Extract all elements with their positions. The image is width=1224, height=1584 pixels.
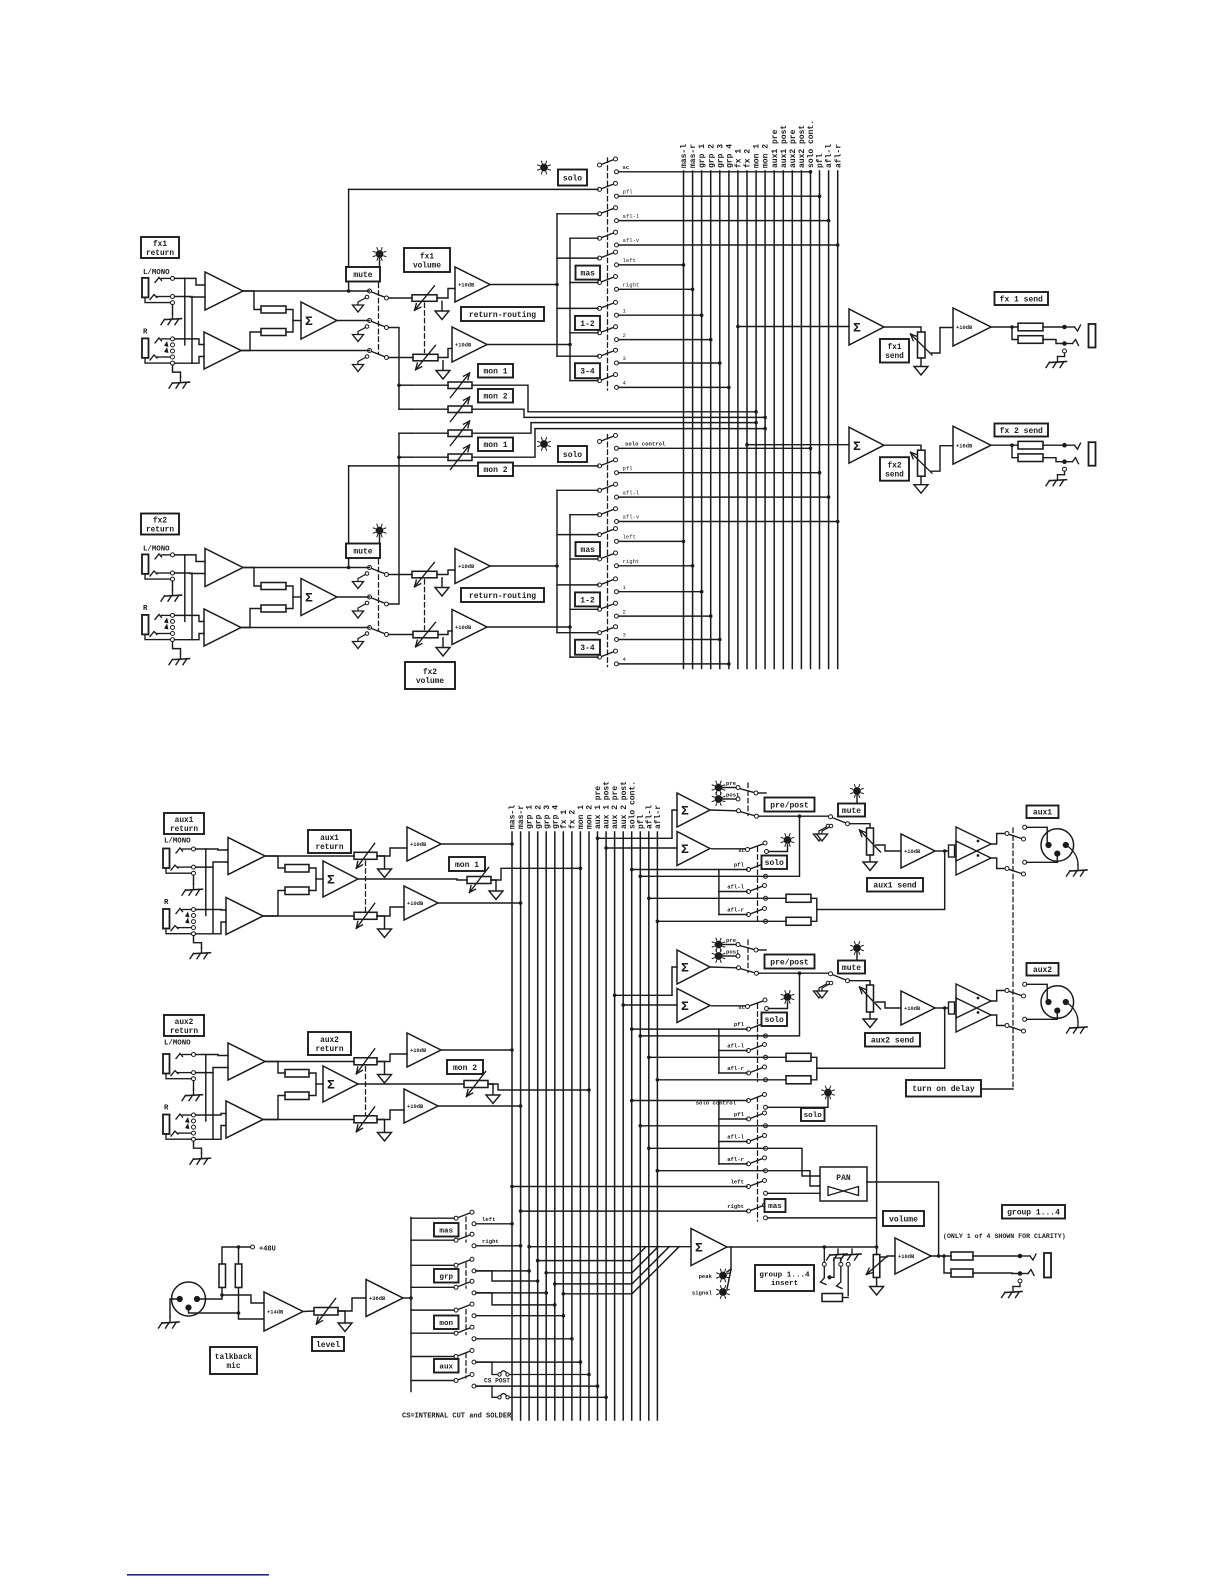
op-amp fx1 mono sum <box>301 302 337 339</box>
svg-text:Σ: Σ <box>305 591 313 606</box>
svg-text:2: 2 <box>623 332 626 339</box>
svg-text:mas: mas <box>768 1203 782 1211</box>
svg-text:1-2: 1-2 <box>580 596 595 605</box>
wire (fx1 L routing bracket) <box>556 214 558 356</box>
op-amp fx2 send +10dB <box>953 426 991 464</box>
ground contact (fx1 mute L) <box>365 295 369 299</box>
svg-text:signal: signal <box>692 1290 713 1297</box>
wire (+14dB to level pot) <box>303 1310 314 1313</box>
svg-text:+36dB: +36dB <box>369 1296 386 1302</box>
wire (fx1 sum to send pot) <box>884 327 921 332</box>
wire (fx1 R routing bracket) <box>569 238 571 380</box>
svg-text:R: R <box>143 329 148 337</box>
wire (aux1 pre sum to switch) <box>710 809 737 812</box>
potentiometer aux1 return level R <box>354 912 377 919</box>
junction (aux1 afl-l) <box>647 897 651 901</box>
label box aux1 return <box>164 813 204 834</box>
jack J-group-insert (insert point) <box>823 1247 825 1262</box>
label box fx 2 send <box>995 424 1049 437</box>
junction (talkback aux2 post) <box>604 1396 608 1400</box>
ground (insert jack send) <box>837 1249 839 1254</box>
wire (aux1 mon 1 pot to bus) <box>491 868 580 880</box>
svg-text:aux1 send: aux1 send <box>873 882 916 891</box>
wire (bus fx 2 to fx2 send sum) <box>747 444 849 446</box>
wire (aux1 driver hot out) <box>991 834 1005 845</box>
switch fx2 routing: 1 <box>601 579 614 584</box>
junction (fx2 R feed) <box>568 625 572 629</box>
svg-text:afl-l: afl-l <box>727 1043 744 1050</box>
dashed gang link (talkback aux) <box>465 1353 467 1378</box>
wire (fx2 L ring normal to R) <box>191 573 193 640</box>
op-amp aux2 mono sum <box>323 1066 358 1102</box>
svg-text:PAN: PAN <box>836 1174 851 1183</box>
label box return-routing (fx2) <box>461 588 544 602</box>
wire (volume wiper to +10dB) <box>880 1256 895 1257</box>
wire (volume pot ground) <box>876 1278 878 1287</box>
svg-text:CS=INTERNAL CUT and SOLDER: CS=INTERNAL CUT and SOLDER <box>402 1413 512 1421</box>
wire (fx1 L tip normal to R) <box>184 278 186 345</box>
svg-text:sc: sc <box>623 164 630 171</box>
wire (aux2 L buffer to resistor) <box>265 1062 285 1074</box>
svg-text:+10dB: +10dB <box>407 901 424 907</box>
ground (aux1 XLR shell) <box>1077 865 1079 870</box>
label box mas (talkback route) <box>434 1223 459 1237</box>
svg-text:afl-l: afl-l <box>825 144 834 168</box>
wire (fx1 +10dB L out to bracket) <box>490 284 557 286</box>
wire (aux1 L buffer to resistor) <box>265 856 285 868</box>
switch fx2 routing: afl-l <box>601 485 614 490</box>
svg-text:aux1 post: aux1 post <box>780 125 789 168</box>
dashed gang link (fx2 routing bank) <box>607 435 609 667</box>
ground (aux2 level L pot) <box>378 1075 392 1084</box>
ground (jack aux2 R sleeve) <box>201 1153 203 1158</box>
wire (fx1 mute L to volume pot) <box>389 297 413 299</box>
LED fx1 mute indicator <box>376 251 383 258</box>
dashed gang link (talkback grp) <box>465 1263 467 1288</box>
op-amp aux1 +10dB R <box>404 886 438 920</box>
switch aux2 pre/post signal <box>740 969 755 973</box>
junction (group sum tap 3) <box>544 1271 548 1275</box>
wire (jack fx2 R sleeve to ground) <box>173 642 181 654</box>
svg-text:right: right <box>727 1203 744 1210</box>
switch talkback mon 2 <box>458 1328 471 1333</box>
wire (aux2 L tip normal to R) <box>205 1055 207 1122</box>
label box aux1 send <box>867 878 923 892</box>
wire (aux1 afl-r pole feed) <box>719 914 747 916</box>
svg-text:aux1: aux1 <box>320 835 339 843</box>
svg-text:grp 1: grp 1 <box>698 144 707 168</box>
svg-text:aux1 pre: aux1 pre <box>771 129 780 168</box>
switch fx2 routing: 3 <box>601 627 614 632</box>
wire (spine to talkback mas 2) <box>411 1239 454 1241</box>
resistor (fx1 L to sum) <box>261 306 286 313</box>
dashed gang link (aux1 solo bank) <box>757 847 759 923</box>
svg-text:afl-r: afl-r <box>834 144 843 168</box>
switch fx1 routing: sc <box>601 160 614 165</box>
switch aux1 mute <box>832 818 846 824</box>
junction (group solo cont) <box>630 1099 634 1103</box>
svg-text:1-2: 1-2 <box>580 320 595 329</box>
wire (fx1 mute mono out to mon pots) <box>389 328 400 410</box>
junction (aux2 afl-r) <box>656 1078 660 1082</box>
dashed gang link (fx2 volume pots) <box>424 580 426 630</box>
wire (bus tap 5 to group sum, diagonal) <box>563 1247 679 1294</box>
svg-text:fx1: fx1 <box>420 253 434 261</box>
ground contact (aux2 mute) <box>826 981 830 985</box>
wire (fx2 L bracket to pole) <box>557 534 598 536</box>
wire (aux1 R pot to +10dB) <box>377 907 404 916</box>
svg-text:fx2: fx2 <box>153 517 167 525</box>
wire (talkback aux2) <box>476 1385 598 1387</box>
junction (talkback grp1) <box>527 1269 531 1273</box>
wire (sum node to aux2 sum amp) <box>316 1083 323 1085</box>
junction (fx2 mon2 on bus) <box>763 427 767 431</box>
wire (group sc pole feed) <box>719 1100 747 1102</box>
ground (aux1 level L pot) <box>378 869 392 878</box>
potentiometer fx1 send level <box>918 332 926 358</box>
junction (group afl-r) <box>656 1169 660 1173</box>
LED fx2 mute indicator <box>376 527 383 534</box>
ground contact (fx2 mute R) <box>365 632 369 636</box>
wire (aux2 pre LED to switch) <box>723 944 737 946</box>
svg-text:mas-l: mas-l <box>680 144 689 168</box>
wire (sum node to aux1 sum amp) <box>316 878 323 880</box>
svg-text:pfl: pfl <box>623 465 634 472</box>
wire (talkback grp4 stair) <box>476 1293 555 1305</box>
switch fx2 routing: left <box>601 529 614 534</box>
op-amp aux1 send +10dB <box>901 834 935 868</box>
wire (+48V feed) <box>222 1247 251 1264</box>
connector aux2 XLR output <box>1041 986 1074 1019</box>
wire (aux1 L pot ground) <box>377 856 385 869</box>
junction (aux1 afl tap) <box>943 849 947 853</box>
wire (fx2 L buffer out to mute) <box>243 567 370 569</box>
switch group mas: right <box>750 1206 763 1211</box>
svg-text:pfl: pfl <box>734 862 745 869</box>
ground (jack aux1 R sleeve) <box>201 948 203 953</box>
bus lines (top section): mas-l..afl-r with rotated labels <box>683 171 685 669</box>
switch aux1 solo: afl-r <box>750 909 763 914</box>
wire (fx1 mon2 pot to mon2 bus) <box>472 409 765 417</box>
wire (afl-r bus to group bank) <box>657 1170 765 1172</box>
resistor (aux2 driver input) <box>949 1002 955 1014</box>
svg-text:send: send <box>885 353 904 361</box>
wire (aux2 R buffer to level pot) <box>263 1119 354 1121</box>
svg-text:peak: peak <box>699 1273 713 1280</box>
switch talkback grp 1 <box>458 1260 471 1265</box>
svg-text:return: return <box>146 526 174 534</box>
wire (aux2 mon 2 pot to bus) <box>488 1084 589 1090</box>
wire (aux1 afl-r to resistor) <box>768 920 787 922</box>
wire (fx1 volume R to +10dB) <box>438 349 452 358</box>
wire (jack fx1 R tip to R buffer) <box>175 339 205 345</box>
wire (afl-l bus to aux1 bank) <box>649 897 768 899</box>
switch aux2 output hot <box>1009 991 1022 995</box>
junction (aux1 mon 1 on bus) <box>579 867 583 871</box>
junction (talkback mon1) <box>562 1314 566 1318</box>
wire (aux2 driver hot out) <box>991 991 1005 1002</box>
wire (fx2 pre-mute feed vertical lower) <box>348 558 350 568</box>
wire (fx2 afl-v to bus afl-r) <box>619 521 838 523</box>
switch aux1 solo: afl-l <box>750 886 763 891</box>
svg-text:mic: mic <box>226 1363 240 1371</box>
wire (fx1 mon pots feed2) <box>412 408 448 410</box>
label box pre/post (aux1) <box>765 798 815 812</box>
wire (aux1 driver cold out) <box>991 858 1005 869</box>
wire (aux2 +10dB R to mas-r bus) <box>438 1105 521 1107</box>
label box volume <box>883 1211 924 1226</box>
jack J-fx1-R (R return input) <box>142 338 149 358</box>
wire (fx1 branch to cold resistor) <box>1012 327 1018 340</box>
op-amp aux1 +10dB L <box>407 827 441 861</box>
wire (aux2 pfl pick vertical) <box>766 973 800 1036</box>
wire (aux1 afl mix join) <box>811 898 817 921</box>
svg-text:+10dB: +10dB <box>455 343 472 349</box>
connector talkback mic XLR input <box>172 1282 206 1316</box>
wire (aux2 mon 2 pot ground) <box>488 1084 493 1095</box>
wire (fx2 +10dB L out to bracket) <box>490 565 557 567</box>
svg-text:grp 4: grp 4 <box>726 144 735 168</box>
label box mute (aux2) <box>838 961 865 974</box>
op-amp aux2 return L input buffer <box>228 1043 265 1080</box>
junction (R2 pin3) <box>237 1311 241 1315</box>
wire (jack aux2 L tip to buffer) <box>196 1055 229 1056</box>
junction (fx1 L feed) <box>555 283 559 287</box>
wire (group solo bracket) <box>718 1101 720 1164</box>
ground contact (aux1 signal lift) <box>829 824 833 828</box>
switch aux2 solo: pfl <box>750 1024 763 1029</box>
ground (jack fx2 L sleeve) <box>172 590 174 595</box>
svg-text:+10dB: +10dB <box>904 1006 921 1012</box>
junction (talkback aux1 pre) <box>579 1360 583 1364</box>
wire (fx1 hot resistor to jack) <box>1043 326 1065 328</box>
label box mas (group bank) <box>765 1199 786 1212</box>
svg-text:pre: pre <box>726 937 737 944</box>
junction (group pfl) <box>638 1124 642 1128</box>
label box aux1 out <box>1027 806 1059 819</box>
wire (group left row to PAN) <box>768 1192 821 1194</box>
junction (fx1 mon2 on bus) <box>763 416 767 420</box>
wire (aux1 mute LED stem) <box>856 795 858 803</box>
wire (fx2 L tip normal to R) <box>184 555 186 622</box>
ground (aux2 mon 2 pot) <box>486 1095 500 1104</box>
label box mon 1 (fx2) <box>478 438 513 452</box>
junction (fx1 send split) <box>1010 325 1014 329</box>
label box mas (fx1 routing) <box>576 266 601 280</box>
svg-text:mon 2: mon 2 <box>483 393 507 402</box>
wire (jack fx2 L sleeve to ground) <box>172 581 174 590</box>
potentiometer fx2 send level <box>918 450 926 476</box>
wire (fx2 hot resistor to jack) <box>1043 444 1065 446</box>
junction (fx1 mon feed) <box>397 383 401 387</box>
junction (fx2 right on bus mas-r) <box>691 564 695 568</box>
switch fx2 routing: right <box>601 554 614 559</box>
wire (jack aux1 L ring to buffer) <box>196 862 229 867</box>
switch fx1 routing: left <box>601 253 614 258</box>
wire (aux2 L ring normal to R) <box>212 1073 214 1140</box>
resistor phantom R2 <box>235 1264 242 1288</box>
wire (fx1 L bracket to pole) <box>557 257 598 259</box>
svg-text:left: left <box>623 534 636 541</box>
wire (volume pot feed) <box>876 1247 878 1255</box>
wire (afl-l bus to group bank) <box>649 1147 766 1149</box>
wire (jack aux2 R sleeve to ground) <box>194 1141 202 1153</box>
wire (spine to talkback aux 2) <box>411 1380 454 1382</box>
junction (+48V split) <box>237 1245 241 1249</box>
op-amp aux1 balanced driver - <box>956 841 991 875</box>
wire (fx1 +10dB R out to bracket) <box>487 344 570 346</box>
wire (fx1 afl-v to bus afl-r) <box>619 244 838 246</box>
wire (group pfl pick) <box>766 1126 877 1218</box>
junction (aux1 post pick) <box>604 846 608 850</box>
wire (aux1 R pot ground) <box>377 916 385 929</box>
jack J-fx2-L (L/MONO return input) <box>142 554 149 574</box>
resistor (aux1 L to sum) <box>285 865 309 873</box>
wire (aux1 mon 1 pot ground) <box>491 880 496 891</box>
svg-text:afl-l: afl-l <box>623 489 640 496</box>
op-amp fx1 return R input buffer <box>204 332 241 369</box>
switch aux1 solo: pfl <box>750 864 763 869</box>
svg-text:volume: volume <box>413 262 441 270</box>
wire (fx2 L routing bracket) <box>556 490 558 632</box>
wire (jack fx1 L ring to L buffer) <box>175 296 206 299</box>
switch aux2 solo: afl-r <box>750 1068 763 1073</box>
wire (fx1 R bracket to pole) <box>570 380 598 382</box>
svg-text:insert: insert <box>771 1280 798 1288</box>
label box fx 1 send <box>995 292 1049 305</box>
label box fx1 send <box>880 339 909 363</box>
svg-text:right: right <box>623 282 640 289</box>
dashed gang link (talkback mas) <box>465 1217 467 1242</box>
svg-text:mon 1: mon 1 <box>483 441 507 450</box>
potentiometer fx1 mon 2 send <box>448 406 472 413</box>
svg-text:pfl: pfl <box>734 1111 745 1118</box>
junction (fx1 send pick from fx 1) <box>736 325 740 329</box>
junction (group afl-l) <box>647 1147 651 1151</box>
wire (fx2 send pot to ground) <box>920 476 922 485</box>
svg-text:fx 2 send: fx 2 send <box>1000 427 1043 436</box>
wire (+36dB out to spine) <box>403 1297 411 1299</box>
ground (fx1 send pot) <box>914 367 928 376</box>
svg-text:mute: mute <box>842 964 861 973</box>
wire (group solo sc to LED) <box>768 1097 829 1107</box>
label box solo (fx1) <box>558 170 587 186</box>
label box group 1...4 <box>1002 1205 1065 1219</box>
wire (jack aux1 L sleeve to ground) <box>193 875 195 884</box>
ground (output jack sleeve) <box>1012 1287 1014 1292</box>
wire (fx2 +10dB R out to bracket) <box>487 626 570 628</box>
wire (fx1 volume L pot to ground) <box>441 301 443 311</box>
svg-text:mon 1: mon 1 <box>753 144 762 168</box>
wire (fx2 L buffer out to resistor) <box>243 568 261 587</box>
wire (spine to talkback mon 1) <box>411 1309 454 1311</box>
wire (fx1 right to bus mas-r) <box>619 288 693 290</box>
svg-text:Σ: Σ <box>681 842 689 857</box>
svg-text:mon 2: mon 2 <box>453 1064 477 1073</box>
svg-text:afl-r: afl-r <box>727 1156 744 1163</box>
wire (spine to talkback grp 1) <box>411 1264 454 1266</box>
potentiometer aux1 return level L <box>354 852 377 859</box>
dashed gang link (fx1 mute switches) <box>378 283 380 354</box>
wire (afl-l bus to aux2 bank) <box>649 1056 768 1058</box>
wire (aux1 pfl pick vertical) <box>766 816 800 876</box>
svg-text:+48U: +48U <box>259 1246 276 1254</box>
wire (fx2 R buffer out to resistor) <box>241 609 261 628</box>
op-amp aux2 pre sum <box>677 950 710 984</box>
resistor (aux1 afl-l mix) <box>786 894 811 902</box>
junction (aux2 afl tap) <box>943 1006 947 1010</box>
junction (aux2 pfl) <box>638 1034 642 1038</box>
wire (aux2 hot to XLR pin2) <box>1027 984 1048 999</box>
jack J-fx2-R (R return input) <box>142 615 149 635</box>
wire (+48V feed branch) <box>238 1247 240 1264</box>
wire (fx2 R bracket to pole) <box>570 558 598 560</box>
wire (fx1 4 to bus grp 4) <box>619 386 729 388</box>
wire (fx2 pot wiper to +10dB) <box>932 446 954 472</box>
ground (aux1 mon 1 pot) <box>489 891 503 900</box>
wire (fx2 mon pots feed) <box>412 432 448 434</box>
wire (aux2 L buffer to level pot) <box>265 1061 354 1063</box>
wire (aux2 afl-l pole feed) <box>719 1050 747 1052</box>
op-amp fx2 return R input buffer <box>204 609 241 646</box>
wire (jog into aux1 pre sum) <box>672 810 677 838</box>
junction (aux1 pfl) <box>638 875 642 879</box>
svg-text:+10dB: +10dB <box>407 1104 424 1110</box>
junction (talkback mas-r) <box>519 1244 523 1248</box>
wire (aux1 XLR pin1 to ground) <box>1066 845 1078 865</box>
jumper CS (aux1 post) <box>476 1362 498 1374</box>
switch fx1 routing: 2 <box>601 327 614 332</box>
op-amp aux2 balanced driver - <box>956 998 991 1032</box>
LED aux2 pre indicator <box>715 941 722 948</box>
wire (jack aux1 R sleeve to ground) <box>194 936 202 948</box>
wire (jog into aux2 pre sum) <box>672 967 677 995</box>
svg-text:left: left <box>623 257 636 264</box>
wire (peak LED stem) <box>727 1269 731 1272</box>
switch fx2 routing: 2 <box>601 604 614 609</box>
junction (fx2 L feed) <box>555 564 559 568</box>
LED aux2 post indicator <box>715 953 722 960</box>
op-amp aux2 return R input buffer <box>226 1101 263 1138</box>
wire (fx1 volume L to +10dB) <box>437 289 455 299</box>
svg-text:solo: solo <box>804 1112 823 1120</box>
jack J-aux2-L (L/MONO return input) <box>163 1054 170 1074</box>
wire (aux1 L ring normal to R) <box>212 867 214 934</box>
junction (aux1 R on mas-r) <box>519 901 523 905</box>
label box aux1 return (level) <box>308 830 351 853</box>
switch fx1 mute L <box>371 292 385 298</box>
wire (talkback XLR pin3 to amp) <box>189 1308 265 1319</box>
wire (aux1 pot wiper to +10dB) <box>876 845 901 851</box>
wire (fx2 3 to bus grp 3) <box>619 639 720 641</box>
junction (talkback grp3) <box>544 1291 548 1295</box>
switch aux1 solo sc <box>749 844 763 849</box>
svg-text:CS POST: CS POST <box>484 1378 510 1385</box>
junction (fx1 pfl on bus pfl) <box>818 194 822 198</box>
wire (jack fx2 R ring to R buffer) <box>175 634 205 640</box>
wire (aux1 sum to mon 1 pot) <box>358 879 467 880</box>
potentiometer talkback level <box>314 1308 338 1316</box>
junction (R1 pin2) <box>220 1293 224 1297</box>
svg-text:L/MONO: L/MONO <box>143 269 170 277</box>
svg-text:return: return <box>315 844 343 852</box>
wire (aux1 L pot to +10dB) <box>377 848 407 856</box>
junction (fx2 4 on bus grp 4) <box>727 662 731 666</box>
junction (insert send tap) <box>823 1245 827 1249</box>
LED aux2 solo indicator <box>784 994 791 1001</box>
wire (talkback mas right) <box>476 1245 521 1247</box>
svg-text:mon: mon <box>439 1320 453 1328</box>
